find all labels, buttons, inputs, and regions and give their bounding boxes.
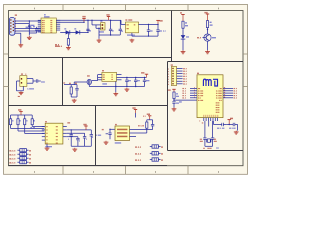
inner sheet border [9, 11, 244, 166]
capacitor C10 at regulator input [118, 25, 120, 29]
LED D3 [181, 35, 189, 39]
diode D2 [75, 28, 80, 34]
wire J2 to rail [88, 20, 111, 25]
IC U1 MAX232 [41, 18, 56, 33]
zone number labels [34, 8, 219, 173]
capacitor C26 [106, 129, 112, 139]
transistor Q1 [203, 34, 212, 41]
label blue left edge [96, 135, 101, 136]
sheet background [4, 4, 248, 175]
sensor S1 row [135, 145, 163, 148]
zone tick top 3 [187, 5, 189, 11]
capacitor C22a [134, 77, 140, 86]
capacitor C23a [143, 77, 150, 86]
U6 left pins [42, 127, 45, 141]
wire U6 right rails [67, 130, 92, 137]
net label left of R1 [55, 44, 59, 45]
resistor R1 vertical [67, 32, 69, 47]
resistor RP3 [24, 115, 28, 134]
wire J2 pin2 to ground [98, 28, 99, 39]
wire R3 to Q1 [207, 28, 208, 34]
zone tick bottom 3 [187, 166, 189, 175]
power flag for LED branch [180, 12, 185, 21]
wire J2 pins [96, 25, 101, 28]
wire crystal drops [205, 121, 213, 138]
IC U5 amplifier [102, 72, 117, 81]
label U6 value blue [46, 146, 52, 147]
wire rc to mic [64, 82, 87, 85]
wire J1 pin7 [15, 28, 41, 30]
U3 bottom pins [204, 118, 218, 121]
zone tick top 2 [125, 5, 127, 11]
capacitor C13 [172, 102, 179, 108]
U4 output wires [27, 79, 36, 84]
label J1 designator [15, 14, 17, 19]
ground under C13 [172, 108, 177, 112]
label Q1 value [212, 37, 216, 38]
U3 internal pin names left [198, 88, 203, 101]
resistor R2 [182, 21, 188, 28]
sensor S2 row [135, 152, 163, 155]
zone tick bottom 2 [125, 166, 127, 175]
label C20 red [75, 83, 77, 84]
power flag near caps [226, 118, 233, 126]
wire U5 ground drop [115, 81, 117, 92]
zone tick bottom 1 [62, 166, 64, 175]
wire C26 top to IC [109, 129, 115, 130]
capacitor C21 [125, 77, 131, 86]
capacitor C15 series [217, 123, 226, 129]
section divider horizontal top-row bottom [9, 57, 172, 59]
wire cap bottoms to ground rail [99, 34, 120, 35]
label U6 red [45, 121, 47, 122]
label U5 red [102, 70, 104, 71]
label VCC top right of U6 red [68, 122, 71, 123]
U7 right pin wires [130, 130, 146, 137]
label U2 value [127, 34, 135, 35]
pullup rail wire [11, 114, 33, 116]
IC U4 oscillator module [20, 76, 27, 87]
section divider vertical top-right [171, 11, 173, 62]
label U3 designator [197, 73, 199, 74]
ground under C26 [104, 141, 109, 145]
zone tick left A [4, 53, 9, 55]
wire diode row [60, 31, 88, 33]
U3 internal pin names right [204, 88, 222, 117]
section bottom edge emphasize [9, 164, 168, 166]
power flag transistor branch [205, 12, 210, 21]
label crystal right red [214, 139, 217, 142]
zone tick top 1 [62, 5, 64, 11]
capacitor C24 [83, 133, 87, 146]
power flag right of U6 [84, 124, 88, 130]
capacitor C6 on x88 rail [86, 20, 91, 34]
label 12 red [143, 116, 145, 117]
label U7 red [115, 124, 117, 125]
button S2 row [10, 153, 31, 156]
IC U3 MCU body [197, 75, 223, 118]
ground under Q1 [205, 50, 210, 54]
U3 left pins [190, 88, 197, 97]
wire U4 ground drop [17, 81, 24, 91]
wire pullups to U6 pins [11, 127, 45, 134]
label U2 7805 [126, 19, 133, 20]
section divider horizontal mcu-box bottom [168, 150, 244, 152]
header P1 pin number specks [167, 69, 170, 85]
U3 left pin labels red [183, 87, 195, 98]
net label left of rc pair [64, 82, 66, 83]
capacitor C19 right of U4 [36, 79, 44, 82]
ground under J2 [97, 39, 102, 43]
outer sheet border [4, 5, 248, 175]
wire U1 TX out top [56, 20, 88, 22]
power flag VCC pullups [18, 109, 22, 115]
wire J1 pin8 [15, 30, 41, 32]
power flag VCC mid [82, 16, 85, 23]
power flag +5V output [156, 20, 162, 24]
capacitor C16 series [229, 123, 238, 129]
wire button chain [22, 152, 24, 161]
wire mic to U5 [92, 75, 102, 81]
resistor R8 [173, 92, 179, 99]
resistor R5 [145, 122, 148, 133]
resistor RP1 [10, 115, 14, 129]
ground under R1 [66, 46, 71, 50]
header J2 2-pin [101, 23, 105, 30]
wire Q1 emitter to ground [207, 41, 209, 50]
capacitor C18 right of crystal [211, 138, 214, 146]
ground under cap bank [125, 87, 130, 92]
header P1 8-pin [171, 67, 176, 86]
label U4 value blue [28, 88, 34, 89]
wire crystal bottom rail [205, 145, 213, 147]
capacitor C27 [141, 122, 155, 130]
section divider vertical mcu-box left [167, 62, 169, 151]
wire R2 to LED [182, 28, 184, 35]
power flag VCC at x108 [107, 14, 111, 20]
label R4 red [69, 83, 71, 84]
U2 ground pin wire [131, 33, 133, 36]
zone tick right A [243, 53, 248, 55]
ground under U2 [130, 39, 135, 43]
label P1 [171, 64, 173, 65]
label Q1 base net red [197, 37, 201, 38]
label RESET red [31, 127, 35, 128]
capacitor C2 [29, 26, 38, 33]
label J2 [100, 20, 104, 32]
resistor R4 [70, 85, 72, 97]
U6 right pins [63, 127, 67, 137]
resistor RP4 [31, 115, 35, 127]
wire to regulator input [121, 20, 126, 24]
net label RS232 red [55, 46, 62, 47]
wire output caps ground rail [132, 35, 158, 36]
power flag output rail [141, 72, 148, 77]
label crystal left red [200, 139, 203, 142]
IC U7 [115, 126, 130, 141]
zone tick left B [4, 86, 9, 88]
wire up from U7 to flag [135, 113, 137, 118]
capacitor C20 [71, 85, 79, 97]
diode D1 [65, 28, 70, 34]
capacitor C8 [109, 20, 114, 35]
capacitor C11 [147, 24, 153, 36]
wire flag to R5 C27 tops [147, 120, 153, 122]
wire U2 output [139, 23, 159, 25]
section divider horizontal bottom-row top [9, 105, 168, 107]
capacitor C23 [76, 137, 80, 147]
resistor RP2 [17, 115, 21, 131]
ground under U5 [113, 92, 118, 96]
ground under rail C1 [27, 36, 32, 40]
U3 right pin labels red [224, 87, 237, 98]
label RST blue [179, 101, 182, 102]
IC U6 [45, 123, 63, 144]
section divider horizontal mcu-box top [168, 61, 244, 63]
wire LED to ground [182, 39, 184, 51]
wire J1 pin2 to U1 [15, 20, 41, 22]
net label RXD [26, 27, 32, 28]
wire caps bottom rail [71, 145, 91, 147]
resistor R3 [206, 21, 212, 28]
capacitor C25 [90, 130, 93, 146]
connector J1 DB9 [9, 18, 15, 36]
microphone MK1 [87, 79, 91, 84]
label mcu bottom blue [216, 147, 218, 148]
ground under U4 [18, 91, 24, 97]
label U5 value blue [103, 83, 107, 84]
capacitor C9 [111, 20, 123, 35]
section divider vertical middle-row [62, 58, 64, 106]
capacitor C1 on rail [28, 25, 34, 27]
U3 logo waveform [203, 79, 217, 86]
wire mcu bottom to right caps [214, 121, 222, 125]
ground under J1 [18, 44, 23, 48]
label J3 red [102, 129, 104, 130]
ground under caps [72, 148, 77, 152]
wire vertical rail at x29 [29, 20, 30, 35]
zone tick right B [243, 86, 248, 88]
wire rc pair bottom [71, 96, 77, 98]
label R5 red [138, 125, 144, 126]
capacitor C17 left of crystal [203, 138, 206, 146]
ground under U6 pin1 [45, 144, 50, 150]
ground under rc pair [72, 99, 77, 103]
sensor S3 row [135, 158, 163, 161]
crystal Y2 [207, 139, 211, 143]
wire R8 to C13 [173, 99, 175, 102]
header P1 pin net labels red [183, 68, 186, 85]
label below crystal red [203, 148, 211, 149]
wire J1 pin3 [15, 23, 29, 25]
ground under LED [181, 50, 186, 54]
IC U2 7805 regulator [126, 22, 139, 33]
label U1 MAX232 [44, 14, 49, 17]
U5 right pins [117, 75, 122, 80]
wire reset to MCU [173, 99, 197, 100]
power flag above U7 [133, 107, 138, 113]
label VCC red below header [168, 89, 176, 92]
button S1 row [10, 149, 31, 152]
wire J1 pin5 ground drop [15, 33, 21, 43]
button S3 row [10, 157, 31, 160]
wire loop below U5 [89, 85, 144, 87]
label U4 red [21, 73, 26, 74]
U1 left pins [38, 20, 41, 32]
power flag R5C branch [147, 113, 152, 119]
label MK1 red [87, 75, 90, 76]
capacitor C22 [68, 129, 73, 146]
capacitor C12 [156, 24, 165, 36]
ground under C16 [234, 125, 239, 135]
U1 right pins [56, 20, 60, 30]
button S4 row [10, 161, 31, 164]
label U7 value blue [115, 142, 121, 143]
J1 pin number specks [14, 21, 17, 32]
U3 bottom pin numbers red [200, 120, 204, 123]
section divider vertical bottom-row [95, 106, 97, 166]
U3 right pins [223, 88, 233, 97]
wire U5 output rail [117, 77, 147, 78]
header P1 pin wires [177, 69, 183, 84]
